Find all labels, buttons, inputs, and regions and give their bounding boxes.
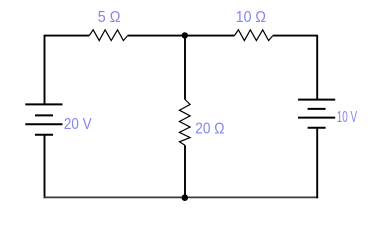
svg-text:5 Ω: 5 Ω <box>98 9 121 26</box>
wire left vertical lower <box>44 135 46 199</box>
battery V1 20V plates <box>25 104 62 134</box>
wire R2 to top-right corner <box>273 35 317 37</box>
node junction top (dot) <box>182 32 188 38</box>
wire top node to R2 <box>185 35 235 37</box>
wire left vertical upper <box>44 35 46 105</box>
resistor R2 10 ohm <box>234 30 272 41</box>
resistor R1 5 ohm <box>89 30 127 41</box>
wire right vertical lower <box>316 128 318 199</box>
wire right vertical upper <box>316 35 318 100</box>
wire middle vertical upper (top node to R3) <box>184 36 186 100</box>
resistor R3 20 ohm vertical <box>179 100 190 146</box>
wire top-left from corner to R1 <box>45 35 90 37</box>
svg-text:10 Ω: 10 Ω <box>236 9 266 26</box>
wire middle vertical lower (R3 to bottom node) <box>184 145 186 197</box>
svg-text:10 V: 10 V <box>337 109 358 126</box>
svg-text:20 V: 20 V <box>64 116 92 133</box>
wire R1 to top node <box>128 35 185 37</box>
node junction bottom (dot) <box>182 194 189 201</box>
svg-text:20 Ω: 20 Ω <box>195 120 224 137</box>
wire bottom <box>44 196 319 198</box>
battery V2 10V plates <box>298 100 335 128</box>
